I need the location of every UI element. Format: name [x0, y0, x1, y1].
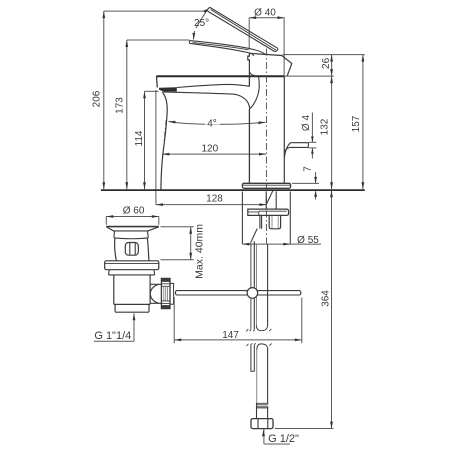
handle cap [248, 53, 292, 76]
centerline [265, 49, 267, 244]
dim 128 line [156, 204, 267, 206]
aerator outlet [159, 87, 177, 92]
column rear edge [283, 76, 285, 183]
lever raised end cap [275, 48, 278, 51]
lever horizontal top edge [190, 41, 266, 55]
svg-text:128: 128 [206, 194, 223, 205]
svg-text:120: 120 [201, 144, 218, 155]
pipe break upper [249, 329, 254, 332]
dim 25deg arc [196, 10, 208, 28]
svg-text:4°: 4° [207, 119, 217, 130]
dim 157 line [362, 55, 364, 190]
dim 173 line [126, 40, 128, 189]
dim 132 extension top [284, 75, 334, 77]
dim O40 extensions [248, 18, 250, 50]
dim O55 extensions [241, 192, 243, 245]
drain tailpiece [115, 304, 149, 312]
dim 364 extension bottom [275, 428, 334, 430]
dim 173 extension top [127, 39, 190, 41]
svg-text:Ø 60: Ø 60 [123, 205, 145, 216]
leader G1 1/4 [94, 313, 134, 341]
label 4deg [205, 118, 220, 125]
dim 147 extensions [173, 297, 175, 343]
spout underside upper line [177, 84, 249, 87]
dim 206 line [103, 11, 105, 189]
supply hose lower segment [256, 350, 258, 404]
washer [170, 283, 174, 304]
pipe break lower [251, 343, 256, 345]
spout tapered left face [161, 92, 167, 190]
svg-text:Ø 40: Ø 40 [254, 7, 276, 18]
svg-text:132: 132 [320, 118, 331, 135]
overflow window [125, 243, 138, 256]
svg-text:Ø 4: Ø 4 [301, 115, 312, 132]
svg-text:26: 26 [321, 57, 332, 69]
drain flare section [109, 270, 155, 275]
svg-text:114: 114 [134, 130, 145, 146]
lever raised inner line [211, 10, 276, 51]
drain flange dish [106, 227, 159, 231]
threaded stud [269, 216, 280, 229]
lever horizontal bottom edge [190, 43, 254, 56]
dim 114 line [144, 91, 146, 189]
drain lower body [114, 275, 150, 305]
dim O4 [311, 113, 313, 143]
svg-text:Ø 55: Ø 55 [297, 235, 319, 246]
handle cap bottom-left fillet [249, 72, 255, 76]
under-counter rod upper verticals [265, 191, 267, 209]
dim 7 arrows [315, 172, 317, 183]
lever horizontal tip cap [188, 41, 190, 44]
lever raised top edge [210, 7, 278, 48]
lever horizontal inner line [193, 43, 249, 50]
drain neck [114, 231, 148, 239]
svg-text:364: 364 [320, 290, 331, 307]
dim 132 line [331, 76, 333, 189]
drain collar [105, 261, 159, 270]
body left tip edge [156, 76, 159, 87]
dim 147 line [174, 339, 302, 341]
mounting bracket left tab [248, 212, 259, 216]
svg-text:206: 206 [92, 90, 103, 107]
base plate [242, 183, 290, 188]
dim 120 line [162, 153, 266, 155]
dim O40 line [249, 17, 284, 19]
drain flange top [106, 226, 159, 228]
svg-text:7: 7 [303, 166, 314, 172]
dim 364 line [331, 190, 333, 428]
dim O55 line [242, 243, 321, 245]
dim O60 line [106, 216, 159, 218]
pop-up rod lower segment [251, 345, 254, 371]
dim 206 extension top [104, 10, 206, 12]
svg-text:147: 147 [222, 330, 239, 341]
spout underside lower line [164, 92, 250, 109]
horizontal linkage rod [175, 291, 247, 295]
pop-up rod below base [250, 241, 252, 288]
leader G1/2 [264, 429, 290, 444]
dim 26 extension top [283, 54, 365, 56]
drain upper cylinder [115, 238, 149, 261]
svg-text:157: 157 [351, 115, 362, 132]
hose collar [256, 403, 268, 408]
side port cone [150, 284, 161, 303]
dim 4deg leader [168, 122, 265, 125]
mounting bracket bar [248, 209, 289, 215]
dim 114 extension top [145, 90, 159, 92]
O4 outlet stub [284, 143, 308, 158]
dim 26 line [331, 55, 333, 77]
connection nut G1/2 [251, 419, 273, 429]
spout lip right curve [250, 76, 259, 109]
dim Max40 line [190, 227, 192, 260]
column front edge [248, 76, 250, 87]
svg-text:Max. 40mm: Max. 40mm [194, 224, 206, 279]
lever raised tip cap [208, 7, 210, 11]
rod mid verticals [260, 216, 262, 229]
countertop line [101, 189, 365, 191]
taper reference dash line [164, 120, 166, 141]
rod lower diagonals [251, 229, 257, 242]
supply hose upper [255, 244, 257, 326]
linkage ball [247, 288, 258, 299]
svg-text:25°: 25° [194, 18, 209, 29]
pop-up rod below ball [250, 298, 252, 329]
svg-text:173: 173 [115, 97, 126, 114]
under-counter rod upper diagonal [266, 191, 272, 204]
defs [94, 9, 365, 444]
knurled nut [161, 278, 170, 308]
svg-text:G 1/2": G 1/2" [268, 433, 299, 445]
body top edge [156, 75, 284, 77]
dim 128 extension left [155, 90, 157, 205]
lever raised bottom edge [208, 11, 275, 52]
svg-text:G 1"1/4: G 1"1/4 [94, 330, 131, 342]
